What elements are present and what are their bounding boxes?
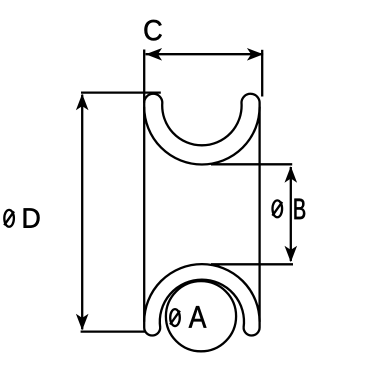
dimension B line <box>290 167 292 261</box>
ring left bottom foot cap <box>144 328 160 336</box>
dimension D top extension line <box>81 91 161 93</box>
label C <box>145 20 162 41</box>
ring top groove outer arc <box>144 107 259 165</box>
label B <box>295 199 306 219</box>
label diameter symbol of B <box>272 200 282 217</box>
arrowhead C left <box>146 48 163 61</box>
ring left outer wall <box>143 50 145 328</box>
ring right bottom foot cap <box>244 328 260 336</box>
label diameter symbol of A <box>170 309 180 326</box>
arrowhead B down <box>285 246 298 263</box>
label A <box>189 306 207 327</box>
ring right outer wall with top cap and groove inner arc <box>144 94 259 328</box>
dimension D line <box>81 95 83 330</box>
dimension C right extension line <box>261 50 263 97</box>
dimension C line <box>146 53 264 55</box>
arrowhead B up <box>285 166 298 183</box>
dimension D bottom extension line <box>81 330 146 332</box>
dimension B bottom extension line <box>211 263 293 265</box>
hole circle A <box>166 281 236 351</box>
ring bottom tube outer dome arc <box>144 264 259 322</box>
label D <box>24 208 40 227</box>
arrowhead C right <box>247 48 264 61</box>
label diameter symbol of D <box>4 210 14 227</box>
ring bottom tube inner arc <box>160 280 244 328</box>
dimension B top extension line <box>211 163 292 165</box>
arrowhead D up <box>76 94 89 111</box>
arrowhead D down <box>76 314 89 331</box>
